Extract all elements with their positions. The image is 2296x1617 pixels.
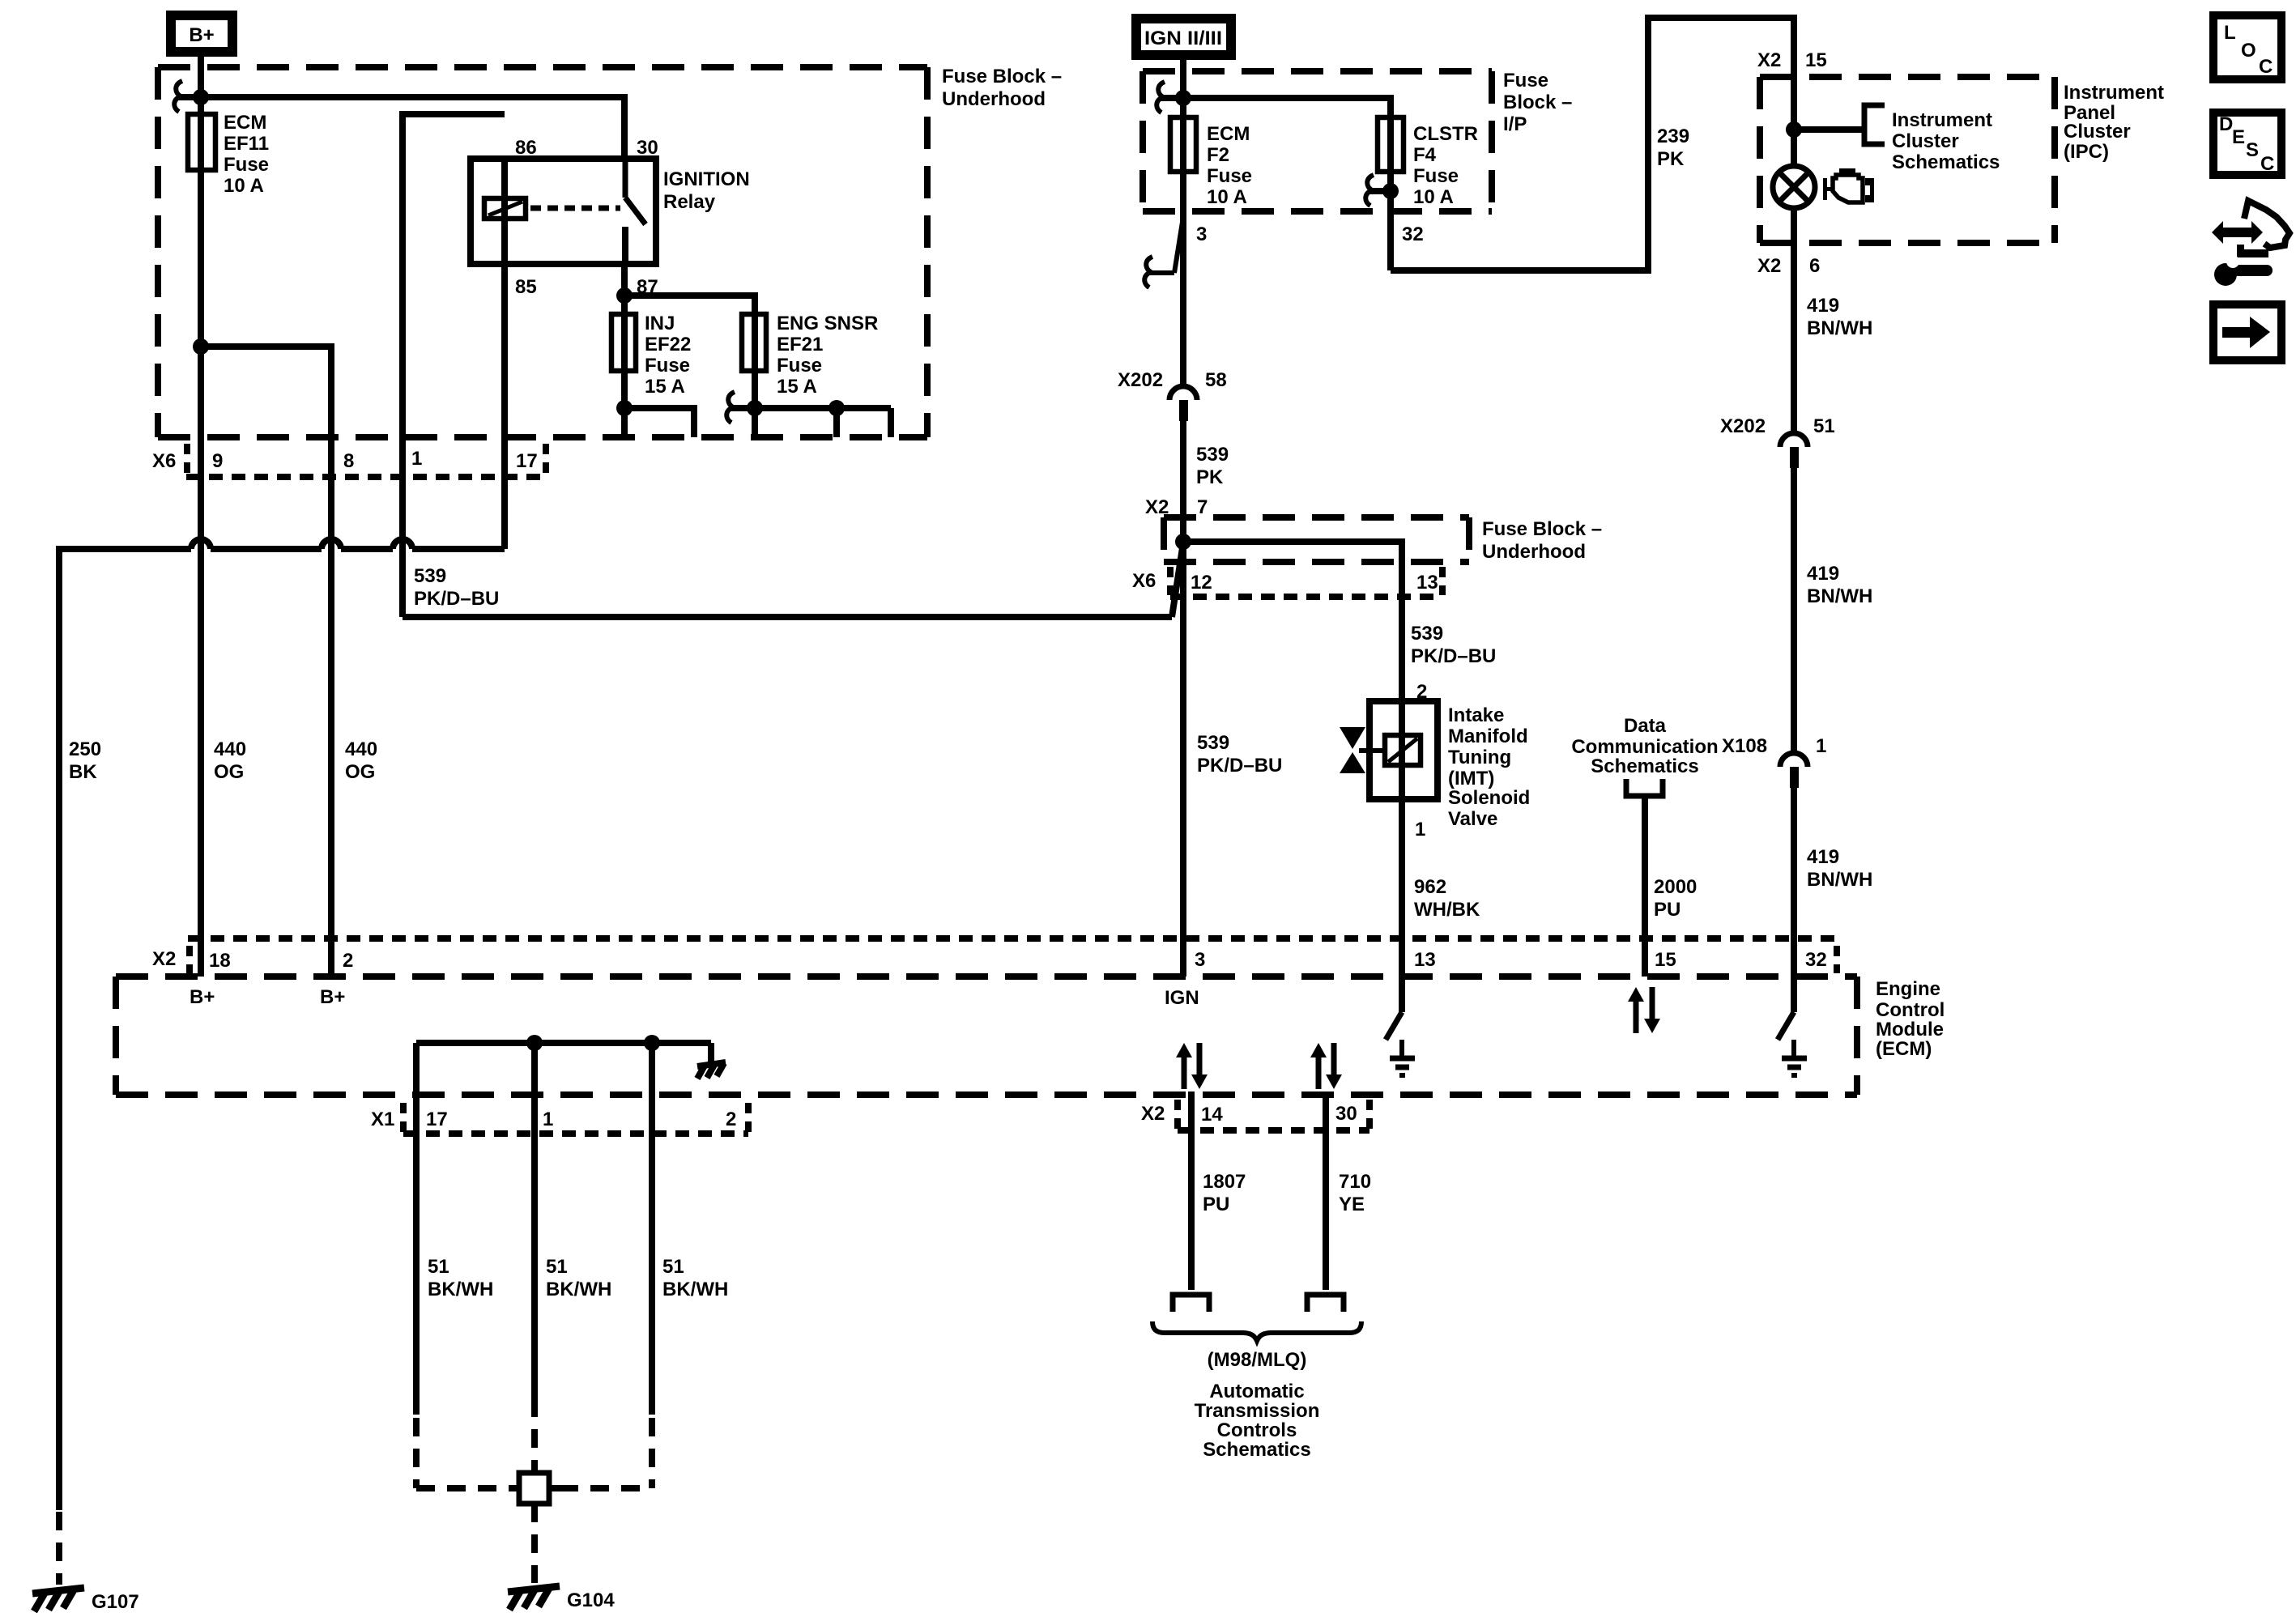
fuse EF11 xyxy=(188,112,269,197)
svg-text:51: 51 xyxy=(546,1256,568,1278)
svg-text:ECM: ECM xyxy=(1207,123,1250,145)
svg-text:539: 539 xyxy=(1411,623,1443,645)
svg-text:239: 239 xyxy=(1657,126,1689,147)
node INJ fuse output xyxy=(616,400,633,416)
wire stub F4 hook xyxy=(1370,188,1391,194)
fuse CLSTR F4 xyxy=(1378,117,1478,208)
ECM driver switch pin 13 xyxy=(1386,977,1415,1075)
svg-text:Instrument: Instrument xyxy=(1892,109,1992,131)
hook clip at B+ entry xyxy=(174,81,182,112)
svg-text:85: 85 xyxy=(515,276,537,298)
fuse block I/P box xyxy=(1143,70,1572,211)
wire stub to hook xyxy=(178,94,201,100)
svg-text:Fuse: Fuse xyxy=(1207,165,1252,187)
connector row X6 middle xyxy=(1132,567,1442,597)
wire 710 YE xyxy=(1323,1091,1329,1290)
svg-text:X2: X2 xyxy=(152,948,176,970)
svg-text:15: 15 xyxy=(1805,49,1827,71)
node IGN branch xyxy=(1175,90,1191,106)
svg-text:Block –: Block – xyxy=(1503,91,1572,113)
svg-text:1: 1 xyxy=(1816,735,1826,757)
svg-text:Fuse: Fuse xyxy=(1413,165,1459,187)
svg-text:(IPC): (IPC) xyxy=(2064,141,2109,163)
svg-text:Underhood: Underhood xyxy=(942,88,1046,110)
wire X1-1 ground lead xyxy=(531,1043,538,1398)
svg-text:9: 9 xyxy=(212,450,223,472)
svg-text:BN/WH: BN/WH xyxy=(1807,869,1872,891)
svg-text:539: 539 xyxy=(1197,732,1229,754)
ECM serial data arrows pin 15 xyxy=(1628,987,1660,1033)
wire branch to cluster schematics xyxy=(1794,126,1864,133)
svg-text:3: 3 xyxy=(1196,223,1207,245)
fuse block underhood box xyxy=(158,66,1062,437)
svg-text:Controls: Controls xyxy=(1217,1419,1297,1441)
node at B+ branch xyxy=(193,89,209,105)
svg-text:Communication: Communication xyxy=(1571,736,1718,758)
svg-text:6: 6 xyxy=(1809,255,1820,277)
wire X1-17 ground lead xyxy=(413,1043,420,1415)
wire relay 87 down xyxy=(621,264,628,437)
fuse ENG SNSR EF21 xyxy=(742,313,878,398)
hook clip at IGN entry xyxy=(1157,82,1165,113)
wire splice to G104 xyxy=(531,1504,538,1583)
svg-text:2: 2 xyxy=(343,950,353,972)
svg-text:PK/D–BU: PK/D–BU xyxy=(414,588,499,610)
ground G107 xyxy=(32,1588,139,1613)
svg-text:Schematics: Schematics xyxy=(1203,1439,1310,1461)
wire ground bus to G107 xyxy=(59,539,505,1585)
svg-text:G104: G104 xyxy=(567,1589,615,1611)
svg-text:Instrument: Instrument xyxy=(2064,82,2164,104)
svg-text:440: 440 xyxy=(345,738,377,760)
svg-text:PU: PU xyxy=(1203,1194,1229,1215)
svg-text:Fuse Block –: Fuse Block – xyxy=(942,66,1062,87)
svg-text:F2: F2 xyxy=(1207,144,1229,166)
wire branch to X6 pin 8 xyxy=(201,347,331,977)
svg-text:G107: G107 xyxy=(92,1591,139,1613)
splice harness dashed box xyxy=(416,1398,652,1488)
label automatic transmission controls schematics xyxy=(1195,1381,1320,1461)
data communication branch xyxy=(1571,715,1718,977)
wire 239 PK to IPC xyxy=(1391,18,1794,270)
svg-text:PU: PU xyxy=(1654,899,1680,921)
svg-text:X2: X2 xyxy=(1141,1103,1165,1125)
ignition relay xyxy=(471,159,750,264)
node 87 branch xyxy=(616,287,633,304)
svg-text:51: 51 xyxy=(662,1256,684,1278)
connector label X2 pin 7 xyxy=(1145,496,1208,518)
svg-text:C: C xyxy=(2260,153,2274,175)
svg-text:X202: X202 xyxy=(1720,415,1766,437)
bracket instrument cluster schematics xyxy=(1864,105,1885,144)
ground G104 xyxy=(508,1586,615,1611)
svg-text:IGNITION: IGNITION xyxy=(663,168,750,190)
svg-text:O: O xyxy=(2241,40,2256,62)
svg-text:1: 1 xyxy=(411,448,422,470)
wire ENG SNSR output bus xyxy=(731,405,891,411)
svg-text:BN/WH: BN/WH xyxy=(1807,585,1872,607)
svg-text:Fuse: Fuse xyxy=(1503,70,1548,91)
svg-text:S: S xyxy=(2246,139,2259,161)
power feed IGN II/III xyxy=(1136,19,1231,55)
IMT solenoid valve xyxy=(1340,701,1530,830)
svg-text:10 A: 10 A xyxy=(224,175,264,197)
svg-text:(IMT): (IMT) xyxy=(1448,768,1494,789)
svg-text:D: D xyxy=(2219,113,2233,135)
svg-text:15 A: 15 A xyxy=(777,376,817,398)
svg-text:51: 51 xyxy=(1813,415,1835,437)
svg-text:X6: X6 xyxy=(1132,570,1156,592)
power feed B+ xyxy=(171,15,232,52)
svg-text:IGN: IGN xyxy=(1165,987,1199,1009)
node junction 539 xyxy=(1175,534,1191,550)
svg-text:BK/WH: BK/WH xyxy=(662,1279,728,1300)
wire B+ to relay pin 30 xyxy=(201,97,624,159)
svg-text:250: 250 xyxy=(69,738,101,760)
wire 1807 PU xyxy=(1188,1091,1195,1290)
svg-text:F4: F4 xyxy=(1413,144,1437,166)
wire IMT to ECM pin 13 xyxy=(1399,799,1405,977)
svg-text:Schematics: Schematics xyxy=(1591,755,1698,777)
svg-text:X1: X1 xyxy=(371,1108,394,1130)
svg-text:2: 2 xyxy=(726,1108,736,1130)
ECM transmission arrows pin 14 xyxy=(1176,1043,1208,1089)
svg-text:Module: Module xyxy=(1876,1019,1944,1040)
off-page connector 30 xyxy=(1307,1295,1344,1312)
svg-text:419: 419 xyxy=(1807,295,1839,317)
svg-text:X2: X2 xyxy=(1757,255,1781,277)
connector label X2 pin 6 xyxy=(1757,255,1820,277)
svg-text:IGN II/III: IGN II/III xyxy=(1144,28,1222,49)
connector X202 pin 51 xyxy=(1720,415,1835,468)
svg-text:Underhood: Underhood xyxy=(1482,541,1586,563)
svg-text:Fuse: Fuse xyxy=(777,355,822,377)
connector label X2 pin 15 xyxy=(1757,49,1827,71)
connector row X1 xyxy=(371,1103,748,1134)
svg-text:32: 32 xyxy=(1805,949,1827,971)
svg-text:Relay: Relay xyxy=(663,191,716,213)
wire B+ vertical feed xyxy=(198,52,204,977)
svg-text:539: 539 xyxy=(414,565,446,587)
icon DESC button xyxy=(2213,113,2281,175)
chassis ground internal xyxy=(697,1062,726,1079)
svg-text:ECM: ECM xyxy=(224,112,266,134)
off-page connector 14 xyxy=(1173,1295,1209,1312)
svg-text:EF21: EF21 xyxy=(777,334,823,355)
svg-text:B+: B+ xyxy=(189,24,214,46)
svg-text:13: 13 xyxy=(1414,949,1436,971)
hook clip below pin 3 xyxy=(1144,217,1183,287)
instrument panel cluster box xyxy=(1760,77,2164,243)
svg-text:L: L xyxy=(2224,22,2236,44)
svg-text:10 A: 10 A xyxy=(1207,186,1247,208)
svg-text:C: C xyxy=(2259,56,2273,78)
splice S104 square xyxy=(519,1473,549,1504)
connector row X6 xyxy=(152,444,546,477)
svg-text:30: 30 xyxy=(637,137,658,159)
svg-text:Engine: Engine xyxy=(1876,978,1940,1000)
fuse INJ EF22 xyxy=(611,313,691,398)
svg-text:Transmission: Transmission xyxy=(1195,1400,1320,1422)
svg-text:BK/WH: BK/WH xyxy=(428,1279,493,1300)
svg-text:Fuse: Fuse xyxy=(224,154,269,176)
connector X202 pin 58 xyxy=(1118,369,1227,421)
svg-text:BK/WH: BK/WH xyxy=(546,1279,611,1300)
svg-text:X2: X2 xyxy=(1757,49,1781,71)
node IPC branch xyxy=(1786,121,1802,138)
svg-text:962: 962 xyxy=(1414,876,1446,898)
svg-text:Solenoid: Solenoid xyxy=(1448,787,1530,809)
wire ENG output drop c xyxy=(888,408,894,437)
svg-text:8: 8 xyxy=(343,450,354,472)
svg-text:Cluster: Cluster xyxy=(1892,130,1959,152)
node at EF11 branch xyxy=(193,338,209,355)
svg-text:YE: YE xyxy=(1339,1194,1365,1215)
svg-text:X6: X6 xyxy=(152,450,176,472)
svg-text:15 A: 15 A xyxy=(645,376,685,398)
wire IGN to CLSTR fuse xyxy=(1183,98,1391,270)
svg-text:Manifold: Manifold xyxy=(1448,726,1528,747)
svg-text:X108: X108 xyxy=(1722,735,1767,757)
node F4 output xyxy=(1382,183,1399,199)
svg-text:51: 51 xyxy=(428,1256,449,1278)
svg-text:PK: PK xyxy=(1196,466,1224,488)
hook clip at F4 output xyxy=(1365,175,1374,206)
svg-text:Fuse: Fuse xyxy=(645,355,690,377)
indicator lamp MIL xyxy=(1773,166,1815,208)
hook clip at ENG SNSR output xyxy=(726,392,735,423)
svg-text:PK/D–BU: PK/D–BU xyxy=(1197,755,1282,777)
svg-text:13: 13 xyxy=(1416,572,1438,594)
svg-text:Fuse Block –: Fuse Block – xyxy=(1482,518,1602,540)
svg-text:PK/D–BU: PK/D–BU xyxy=(1411,645,1496,667)
svg-text:14: 14 xyxy=(1201,1104,1223,1126)
wire 87 branch to ENG SNSR fuse xyxy=(624,296,755,437)
icon LOC button xyxy=(2213,15,2281,79)
svg-text:WH/BK: WH/BK xyxy=(1414,899,1480,921)
svg-text:CLSTR: CLSTR xyxy=(1413,123,1478,145)
wire stub to hook xyxy=(1161,95,1183,101)
svg-text:58: 58 xyxy=(1205,369,1227,391)
svg-text:BN/WH: BN/WH xyxy=(1807,317,1872,339)
ECM driver switch pin 32 xyxy=(1778,977,1807,1075)
svg-text:INJ: INJ xyxy=(645,313,675,334)
connector row X2 ECM bottom xyxy=(1141,1100,1370,1130)
wire relay 85 to X6 pin 17 xyxy=(501,264,508,549)
label instrument cluster schematics xyxy=(1892,109,2000,173)
fuse ECM F2 xyxy=(1170,117,1252,208)
svg-text:12: 12 xyxy=(1191,572,1212,594)
wire junction to IMT valve xyxy=(1183,542,1402,701)
svg-text:1807: 1807 xyxy=(1203,1171,1246,1193)
wire relay 86 feed from X6 pin 1 xyxy=(403,114,505,617)
svg-text:(ECM): (ECM) xyxy=(1876,1038,1932,1060)
svg-text:PK: PK xyxy=(1657,148,1685,170)
svg-text:B+: B+ xyxy=(190,986,215,1008)
wire 539 PK/D-BU from X6 pin 1 xyxy=(403,543,1183,617)
svg-text:17: 17 xyxy=(516,450,538,472)
svg-text:539: 539 xyxy=(1196,444,1229,466)
ECM transmission arrows pin 30 xyxy=(1310,1043,1342,1089)
fuse block underhood middle box xyxy=(1164,517,1602,563)
svg-text:I/P: I/P xyxy=(1503,113,1527,135)
wire ENG output drop b xyxy=(833,408,840,437)
svg-text:E: E xyxy=(2232,126,2245,148)
wire lamp to X2-6 xyxy=(1791,208,1797,433)
svg-text:EF22: EF22 xyxy=(645,334,691,355)
icon service wrench xyxy=(2212,201,2290,286)
svg-text:Tuning: Tuning xyxy=(1448,747,1511,768)
wire 419 BN/WH lower xyxy=(1791,788,1797,977)
svg-text:440: 440 xyxy=(214,738,246,760)
svg-text:Control: Control xyxy=(1876,999,1945,1021)
wire INJ output branch xyxy=(624,408,694,437)
svg-text:419: 419 xyxy=(1807,846,1839,868)
svg-text:Intake: Intake xyxy=(1448,704,1504,726)
svg-text:7: 7 xyxy=(1197,496,1208,518)
svg-text:OG: OG xyxy=(345,761,375,783)
wire 539 PK continues xyxy=(1180,421,1186,977)
svg-text:ENG SNSR: ENG SNSR xyxy=(777,313,878,334)
svg-text:X202: X202 xyxy=(1118,369,1163,391)
svg-text:710: 710 xyxy=(1339,1171,1371,1193)
wire ECM internal ground bus xyxy=(416,1035,711,1066)
node ENG output a xyxy=(747,400,763,416)
svg-text:Data: Data xyxy=(1624,715,1667,737)
wire IGN feed vertical xyxy=(1180,55,1186,386)
brace M98/MLQ xyxy=(1152,1321,1361,1341)
svg-text:(M98/MLQ): (M98/MLQ) xyxy=(1208,1349,1307,1371)
node ENG output b xyxy=(829,400,845,416)
svg-text:B+: B+ xyxy=(320,986,345,1008)
connector row X2 ECM top xyxy=(152,938,1837,973)
svg-text:OG: OG xyxy=(214,761,244,783)
check engine icon xyxy=(1823,168,1874,202)
wire X1-2 ground lead xyxy=(649,1043,655,1415)
svg-text:3: 3 xyxy=(1195,949,1205,971)
wire 419 BN/WH mid xyxy=(1791,468,1797,753)
svg-text:Schematics: Schematics xyxy=(1892,151,2000,173)
svg-text:Automatic: Automatic xyxy=(1209,1381,1304,1402)
svg-text:18: 18 xyxy=(209,950,231,972)
svg-text:30: 30 xyxy=(1335,1103,1357,1125)
svg-text:86: 86 xyxy=(515,137,537,159)
svg-text:1: 1 xyxy=(543,1108,553,1130)
icon forward arrow button xyxy=(2213,304,2281,360)
svg-text:32: 32 xyxy=(1402,223,1424,245)
svg-text:15: 15 xyxy=(1655,949,1676,971)
connector X108 pin 1 xyxy=(1722,735,1826,788)
svg-text:Cluster: Cluster xyxy=(2064,121,2131,143)
svg-text:BK: BK xyxy=(69,761,97,783)
svg-text:10 A: 10 A xyxy=(1413,186,1454,208)
svg-text:EF11: EF11 xyxy=(224,133,269,155)
svg-text:17: 17 xyxy=(426,1108,448,1130)
svg-text:419: 419 xyxy=(1807,563,1839,585)
svg-text:1: 1 xyxy=(1415,819,1425,840)
svg-text:Valve: Valve xyxy=(1448,808,1497,830)
engine control module box xyxy=(116,977,1945,1095)
svg-text:2000: 2000 xyxy=(1654,876,1697,898)
